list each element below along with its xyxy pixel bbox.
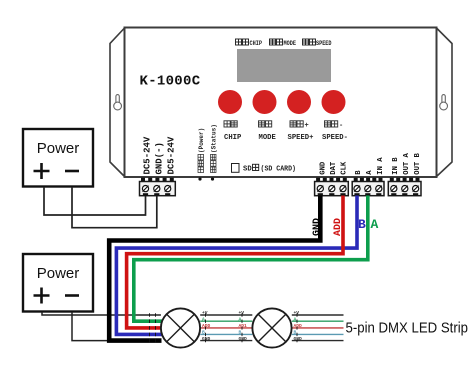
svg-text:+V: +V — [294, 310, 300, 316]
svg-text:DC5-24V: DC5-24V — [167, 136, 177, 174]
svg-text:ADD: ADD — [202, 323, 211, 329]
wire ADD red thick — [127, 196, 343, 328]
svg-text:SD: SD — [243, 166, 252, 174]
strip line B — [200, 333, 343, 335]
pin labels at x=238.5 — [239, 310, 248, 342]
svg-text:ADD: ADD — [333, 218, 344, 236]
junction ticks — [150, 313, 298, 342]
svg-text:MODE: MODE — [284, 40, 297, 47]
SD card slot icon — [232, 164, 240, 173]
svg-text:GND(-): GND(-) — [155, 142, 165, 174]
svg-text:(Status): (Status) — [211, 124, 218, 153]
power supply 2 box — [23, 254, 93, 312]
status LED dot — [211, 177, 214, 180]
svg-text:CHIP: CHIP — [250, 40, 263, 47]
button labels — [224, 121, 348, 142]
svg-text:A: A — [371, 217, 379, 232]
label SD CARD — [243, 164, 296, 173]
wire power1 plus to DC5-24V screw — [44, 187, 146, 215]
controller case K-1000C — [125, 28, 437, 178]
svg-text:ADD: ADD — [294, 323, 303, 329]
power supply 1 box — [23, 129, 93, 187]
svg-text:SPEED-: SPEED- — [322, 134, 348, 142]
svg-text:-: - — [339, 122, 343, 130]
svg-text:+: + — [305, 122, 309, 130]
svg-text:IN A: IN A — [377, 157, 385, 175]
svg-text:B: B — [358, 217, 366, 232]
svg-text:OUT B: OUT B — [414, 152, 422, 174]
svg-text:K-1000C: K-1000C — [140, 74, 201, 90]
svg-text:5-pin DMX LED Strip: 5-pin DMX LED Strip — [346, 320, 469, 337]
svg-text:B: B — [239, 330, 242, 336]
svg-text:+V: +V — [239, 310, 245, 316]
svg-text:DC5-24V: DC5-24V — [143, 136, 153, 174]
terminal block B/A/INA — [352, 178, 384, 196]
pin labels at x=202 — [202, 310, 211, 342]
svg-text:CHIP: CHIP — [224, 134, 242, 142]
svg-text:A: A — [294, 316, 297, 322]
svg-text:B: B — [355, 170, 363, 175]
svg-text:Power: Power — [37, 140, 80, 157]
svg-text:Power: Power — [37, 265, 80, 282]
button MODE — [253, 90, 277, 114]
svg-text:(SD CARD): (SD CARD) — [261, 166, 297, 174]
wire A green thick — [134, 196, 368, 322]
svg-text:A: A — [239, 316, 242, 322]
right keyhole — [440, 95, 448, 110]
label Power LED — [198, 128, 205, 173]
svg-text:GND: GND — [312, 218, 323, 236]
lamp L2 — [252, 308, 291, 347]
lamp L1 — [161, 308, 200, 347]
left keyhole — [114, 95, 122, 110]
strip line ADD — [200, 327, 343, 329]
right mounting ear — [437, 28, 453, 177]
svg-text:SPEED+: SPEED+ — [288, 134, 314, 142]
strip line GND — [200, 340, 343, 342]
terminal block power DC5-24V/GND/DC5-24V — [140, 178, 176, 196]
strip line A — [200, 320, 343, 322]
svg-text:GND: GND — [294, 336, 303, 342]
svg-text:B: B — [294, 330, 297, 336]
svg-text:SPEED: SPEED — [316, 40, 332, 47]
terminal block INB/OUTA/OUTB — [388, 178, 421, 196]
svg-text:CLK: CLK — [341, 161, 349, 175]
label Status LED — [211, 124, 218, 172]
strip line +V — [200, 314, 343, 316]
svg-text:GND: GND — [239, 336, 248, 342]
svg-text:(Power): (Power) — [198, 128, 205, 153]
svg-text:MODE: MODE — [259, 134, 277, 142]
button SPEED+ — [287, 90, 311, 114]
svg-text:GND: GND — [320, 161, 328, 175]
svg-text:B: B — [202, 330, 205, 336]
svg-text:A: A — [366, 170, 374, 175]
svg-text:DAT: DAT — [330, 161, 338, 175]
pin labels at x=293.5 — [294, 310, 303, 342]
button CHIP — [218, 90, 242, 114]
power LED dot — [198, 177, 201, 180]
wire B blue thick — [116, 196, 357, 335]
svg-text:+V: +V — [202, 310, 208, 316]
svg-text:OUT A: OUT A — [403, 152, 411, 174]
svg-text:IN B: IN B — [392, 157, 400, 175]
svg-text:AD1: AD1 — [239, 323, 248, 329]
wire power1 minus to GND screw — [72, 187, 157, 228]
LCD display — [237, 49, 331, 82]
terminal block GND/DAT/CLK — [315, 178, 349, 196]
wire power2 minus to GND line — [72, 312, 110, 341]
button SPEED- — [322, 90, 346, 114]
svg-text:GND: GND — [202, 336, 211, 342]
wire GND black thick — [109, 196, 320, 341]
top labels CHIP MODE SPEED — [236, 39, 332, 47]
left mounting ear — [110, 28, 125, 177]
wire power2 plus to +V line — [42, 312, 161, 315]
svg-text:A: A — [202, 316, 205, 322]
